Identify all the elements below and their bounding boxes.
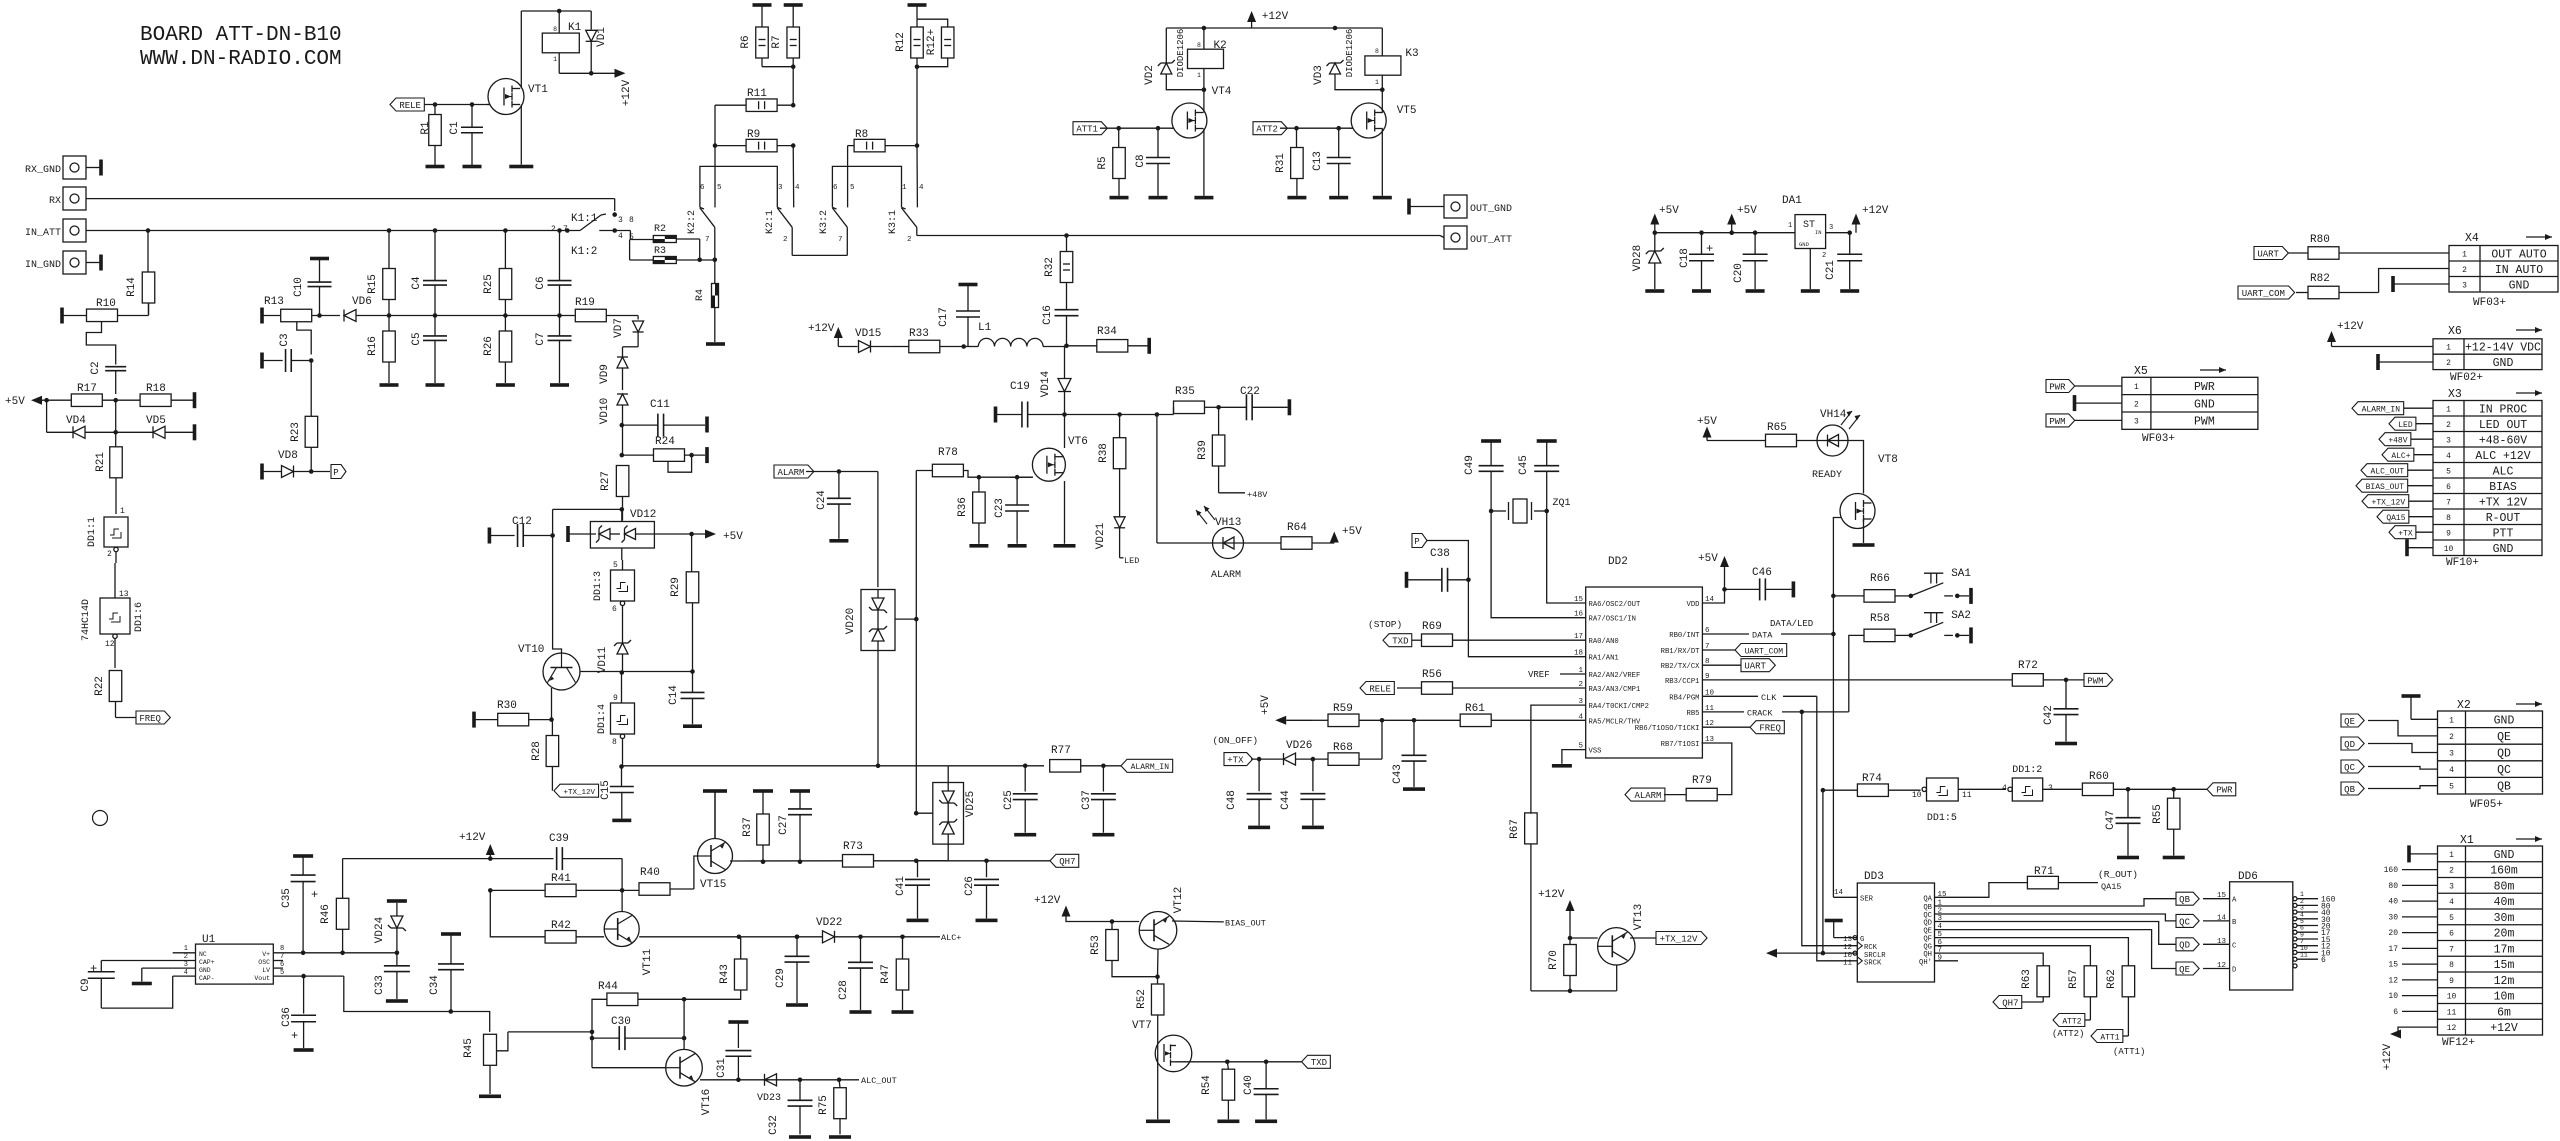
capacitor C17 — [938, 283, 980, 347]
svg-text:ALARM_IN: ALARM_IN — [1131, 763, 1170, 772]
wire VT13 emitter rail — [1531, 990, 1617, 992]
svg-text:ALC+: ALC+ — [941, 933, 961, 943]
wire RB3 to R72 — [1702, 679, 2012, 681]
svg-text:CAP-: CAP- — [199, 975, 215, 982]
svg-text:VD20: VD20 — [845, 608, 857, 634]
logic gate DD1:4 — [597, 673, 635, 767]
svg-text:10: 10 — [2444, 545, 2454, 554]
svg-text:DD3: DD3 — [1864, 871, 1884, 883]
svg-text:1: 1 — [1197, 72, 1201, 79]
resistor R22 — [94, 671, 136, 718]
svg-text:VD12: VD12 — [630, 509, 656, 521]
ground under C1 — [463, 165, 482, 169]
ground under C48 — [1248, 826, 1270, 830]
svg-text:C39: C39 — [549, 833, 569, 845]
net flag ATT1 at R62 — [2091, 1030, 2145, 1058]
svg-text:K3:2: K3:2 — [819, 210, 830, 234]
svg-text:C20: C20 — [1733, 263, 1745, 283]
resistor R2 (jumper) — [630, 224, 676, 243]
svg-text:2: 2 — [2134, 400, 2139, 409]
svg-text:R30: R30 — [497, 700, 517, 712]
svg-text:3: 3 — [2462, 281, 2467, 290]
svg-text:VT6: VT6 — [1068, 436, 1088, 448]
svg-text:C1: C1 — [449, 121, 461, 135]
svg-text:6: 6 — [833, 184, 838, 192]
capacitor C12 — [488, 516, 555, 547]
diode pair VD25 — [914, 766, 977, 863]
resistor R21 — [95, 432, 122, 514]
svg-text:2: 2 — [184, 953, 188, 961]
text (ON_OFF) — [1213, 735, 1259, 746]
svg-text:X2: X2 — [2457, 699, 2471, 712]
svg-text:+48V: +48V — [1247, 490, 1268, 500]
svg-text:1: 1 — [2449, 716, 2454, 725]
svg-text:CRACK: CRACK — [1747, 708, 1773, 718]
power +5V arrow at C20 — [1727, 205, 1757, 233]
svg-text:C15: C15 — [600, 780, 612, 800]
ground lead X6 pin2 — [2376, 354, 2433, 370]
svg-text:30m: 30m — [2494, 912, 2515, 925]
svg-text:R35: R35 — [1175, 386, 1195, 398]
svg-text:RA4/T0CKI/CMP2: RA4/T0CKI/CMP2 — [1589, 703, 1649, 711]
svg-text:C32: C32 — [768, 1115, 780, 1135]
resistor R24 — [620, 436, 709, 472]
ground under C24 — [829, 539, 848, 543]
svg-text:RB4/PGM: RB4/PGM — [1669, 694, 1699, 702]
svg-text:QE: QE — [2497, 731, 2511, 744]
svg-text:+48-60V: +48-60V — [2479, 434, 2527, 447]
wire +12V rail K2 K3 — [1166, 26, 1382, 63]
resistor R77 — [1050, 745, 1121, 772]
svg-text:RELE: RELE — [1369, 684, 1391, 694]
power +5V arrow at DD3 SRCLR — [1766, 949, 1857, 958]
svg-text:R78: R78 — [938, 447, 958, 459]
svg-text:SER: SER — [1860, 896, 1874, 904]
svg-text:(ON_OFF): (ON_OFF) — [1213, 735, 1259, 746]
svg-text:ALARM: ALARM — [777, 468, 804, 478]
ground under C23 — [1008, 544, 1027, 548]
svg-text:R10: R10 — [96, 298, 116, 310]
svg-text:8: 8 — [1197, 42, 1201, 49]
capacitor C21 — [1825, 233, 1862, 289]
svg-text:DD1:5: DD1:5 — [1927, 813, 1957, 824]
resistor R80 — [2288, 234, 2449, 259]
svg-text:1: 1 — [553, 56, 557, 63]
svg-text:VREF: VREF — [1528, 670, 1550, 680]
power +12V arrow mid-left — [459, 832, 495, 859]
ground under C47 — [2117, 856, 2139, 860]
svg-text:RA2/AN2/VREF: RA2/AN2/VREF — [1589, 672, 1641, 680]
svg-text:RB5: RB5 — [1687, 710, 1700, 718]
svg-text:C9: C9 — [80, 978, 92, 991]
svg-text:R46: R46 — [320, 904, 332, 924]
svg-text:WF10+: WF10+ — [2446, 557, 2479, 569]
svg-text:ST: ST — [1803, 220, 1815, 231]
net flag ATT1 — [1073, 122, 1107, 135]
svg-text:R39: R39 — [1197, 440, 1209, 460]
resistor R6 — [740, 27, 793, 67]
ground under R5 — [1110, 196, 1129, 200]
svg-text:VD21: VD21 — [1095, 522, 1107, 549]
ground under C14 — [683, 724, 702, 728]
net flag UART at DD2 — [1702, 659, 1775, 672]
svg-text:+12V: +12V — [1538, 889, 1565, 901]
ground under C36 — [294, 1048, 314, 1052]
svg-text:PWR: PWR — [2194, 381, 2215, 394]
svg-text:17m: 17m — [2494, 943, 2515, 956]
connector IN_ATT — [25, 219, 86, 242]
wire IN_ATT line — [86, 228, 580, 279]
connector X2 — [2438, 699, 2543, 811]
ground lead X2 pin1 — [2402, 694, 2438, 719]
svg-text:C19: C19 — [1010, 381, 1030, 393]
svg-text:C23: C23 — [994, 498, 1006, 518]
wire R45 wiper to C30 node — [508, 1030, 594, 1035]
net flag ALARM_IN at R77 — [1121, 759, 1173, 772]
ground lead X3 pin10 — [2405, 539, 2433, 556]
svg-text:17: 17 — [2388, 945, 2398, 954]
svg-text:R56: R56 — [1422, 669, 1442, 681]
svg-text:+5V: +5V — [1342, 526, 1362, 538]
small circle marker — [93, 811, 108, 826]
ground under C29 — [786, 1003, 808, 1007]
net flag PWR at R60 — [2207, 783, 2236, 796]
svg-text:6: 6 — [2449, 930, 2454, 939]
svg-text:12: 12 — [2388, 976, 2398, 985]
svg-text:QH7: QH7 — [2002, 998, 2018, 1008]
text DIODE1206 K3 — [1345, 29, 1355, 78]
svg-text:VT15: VT15 — [700, 879, 726, 891]
resistor R62 — [2106, 966, 2135, 1036]
svg-text:9: 9 — [2449, 977, 2454, 986]
ground under C42 — [2055, 742, 2077, 746]
svg-text:R55: R55 — [2152, 804, 2164, 824]
capacitor C44 — [1280, 759, 1325, 825]
power +5V arrow at R65 — [1697, 416, 1766, 441]
svg-text:11: 11 — [2447, 1008, 2457, 1017]
resistor R31 — [1275, 128, 1303, 196]
resistor R72 — [2012, 660, 2084, 686]
svg-text:QD: QD — [2344, 740, 2355, 750]
svg-text:K1:1: K1:1 — [571, 213, 598, 225]
capacitor C26 — [964, 861, 999, 919]
net flag BIAS_OUT at X3 — [2356, 479, 2433, 492]
svg-text:C24: C24 — [816, 490, 828, 510]
ground lead X4 pin3 — [2391, 276, 2449, 292]
power +5V arrow at R59 — [1260, 695, 1313, 725]
pushbutton SA2 — [1909, 610, 1973, 643]
net flag UART_COM at DD2 — [1702, 644, 1786, 657]
svg-text:C42: C42 — [2043, 705, 2055, 725]
resistor R52 — [1136, 977, 1164, 1036]
svg-text:+: + — [291, 1029, 298, 1043]
svg-text:VD14: VD14 — [1040, 370, 1052, 397]
wire C49 column to pin16 — [1491, 511, 1586, 618]
svg-text:QD: QD — [2179, 941, 2190, 951]
svg-text:C12: C12 — [512, 516, 532, 528]
svg-text:1: 1 — [1375, 79, 1379, 86]
logic gate DD1:3 — [593, 560, 635, 635]
svg-text:IN_GND: IN_GND — [25, 260, 61, 271]
svg-text:BIAS: BIAS — [2489, 481, 2517, 494]
svg-text:RB1/RX/DT: RB1/RX/DT — [1661, 648, 1701, 656]
svg-text:K2:2: K2:2 — [687, 210, 698, 234]
svg-text:LV: LV — [262, 967, 270, 974]
capacitor C15 — [600, 764, 634, 818]
svg-text:QF: QF — [1923, 936, 1932, 944]
capacitor C27 — [778, 809, 812, 864]
svg-text:X5: X5 — [2134, 365, 2148, 378]
IC DD6 — [2217, 871, 2336, 990]
svg-text:VT16: VT16 — [701, 1089, 713, 1115]
diode VD1 — [586, 27, 608, 74]
capacitor C35 (electrolytic) — [281, 854, 318, 955]
svg-text:R6: R6 — [740, 35, 752, 48]
power +5V arrow at R64 — [1330, 526, 1362, 543]
svg-text:C21: C21 — [1825, 260, 1837, 280]
svg-text:C34: C34 — [429, 975, 441, 995]
power +12V arrow at X6 — [2327, 321, 2433, 347]
svg-text:DD1:2: DD1:2 — [2012, 765, 2042, 776]
svg-text:ALC +12V: ALC +12V — [2475, 450, 2530, 463]
ground under C25 — [1014, 833, 1036, 837]
wire DA1 rail — [1653, 230, 1796, 235]
wire QD to flag — [1935, 922, 2177, 945]
svg-text:R33: R33 — [909, 328, 929, 340]
ground under VT1 — [509, 165, 533, 169]
svg-text:RELE: RELE — [399, 101, 421, 111]
transistor VT15 — [698, 792, 843, 891]
capacitor C41 — [895, 861, 930, 919]
diode VD6 — [344, 296, 575, 322]
svg-text:80: 80 — [2388, 882, 2398, 891]
ground above R7 — [784, 3, 803, 27]
svg-text:C7: C7 — [535, 332, 547, 345]
net flag P at C38 — [1412, 534, 1427, 548]
resistor R14 — [126, 231, 155, 315]
svg-text:R59: R59 — [1333, 703, 1353, 715]
svg-text:+12V: +12V — [621, 79, 633, 106]
svg-text:PWR: PWR — [2216, 786, 2233, 796]
relay coil K1 — [542, 22, 581, 73]
svg-text:R64: R64 — [1287, 522, 1307, 534]
svg-text:GND: GND — [1799, 241, 1810, 248]
svg-text:B: B — [2232, 919, 2237, 927]
ground under C8 — [1149, 196, 1168, 200]
resistor R69 — [1412, 621, 1586, 646]
diode VD22 — [816, 917, 940, 943]
capacitor C28 — [838, 935, 873, 1011]
ground under DA1 — [1801, 289, 1820, 293]
svg-text:R65: R65 — [1767, 422, 1787, 434]
svg-text:R15: R15 — [367, 274, 379, 294]
diode VD5 — [113, 415, 196, 440]
svg-text:11: 11 — [2300, 952, 2308, 959]
svg-text:R16: R16 — [367, 336, 379, 356]
svg-text:DD1:6: DD1:6 — [134, 602, 145, 632]
svg-text:VD2: VD2 — [1144, 65, 1156, 85]
capacitor C38 — [1405, 548, 1471, 592]
relay contact K1:1 — [551, 212, 634, 234]
svg-text:R40: R40 — [640, 867, 660, 879]
svg-text:R43: R43 — [719, 964, 731, 984]
resistor R39 — [1197, 407, 1268, 500]
diode VD24 (zener) — [374, 899, 407, 955]
transistor VT6 (MOSFET) — [1010, 415, 1088, 544]
svg-text:R12+: R12+ — [926, 29, 938, 55]
power +5V arrow right of VD12 — [705, 530, 743, 544]
svg-text:6: 6 — [2446, 483, 2451, 492]
svg-text:+TX: +TX — [2398, 530, 2413, 539]
wire R77 row — [948, 764, 1044, 769]
ground under C40 — [1255, 1120, 1277, 1124]
transistor VT4 (MOSFET) — [1171, 86, 1232, 196]
svg-text:R-OUT: R-OUT — [2486, 512, 2521, 525]
svg-text:(STOP): (STOP) — [1368, 619, 1402, 630]
capacitor C3 — [260, 333, 313, 416]
svg-text:ALARM: ALARM — [1211, 570, 1241, 581]
ground bar above R37 — [753, 789, 773, 813]
svg-text:QA: QA — [1923, 895, 1932, 903]
svg-text:VD1: VD1 — [596, 27, 608, 47]
ground under R31 — [1287, 196, 1306, 200]
wire R11 left column to K2:2 pin5 — [713, 105, 718, 207]
pushbutton SA1 — [1909, 568, 1973, 604]
svg-text:30: 30 — [2388, 913, 2398, 922]
svg-text:QH': QH' — [1919, 959, 1932, 967]
connector RX — [49, 187, 86, 210]
capacitor C25 — [1003, 766, 1038, 833]
svg-text:SA1: SA1 — [1951, 568, 1971, 580]
ground under C13 — [1329, 196, 1348, 200]
svg-text:VT10: VT10 — [518, 644, 544, 656]
svg-text:R41: R41 — [551, 873, 571, 885]
svg-text:VD4: VD4 — [66, 415, 86, 427]
svg-text:+5V: +5V — [1260, 695, 1272, 715]
svg-text:BIAS_OUT: BIAS_OUT — [1225, 919, 1266, 929]
svg-text:ZQ1: ZQ1 — [1553, 498, 1571, 509]
svg-text:QC: QC — [2497, 764, 2511, 777]
ground under R26 — [496, 383, 515, 387]
svg-text:R37: R37 — [742, 817, 754, 837]
ground bar above C27 — [790, 789, 810, 808]
capacitor C49 — [1464, 455, 1504, 511]
svg-text:4: 4 — [1578, 713, 1583, 721]
svg-text:P: P — [1414, 537, 1419, 547]
crystal ZQ1 — [1489, 498, 1571, 523]
resistor R68 — [1328, 720, 1382, 765]
ground under C33 — [386, 999, 408, 1003]
svg-text:C: C — [2232, 942, 2237, 950]
svg-text:VH14: VH14 — [1820, 409, 1847, 421]
svg-text:3: 3 — [2048, 784, 2053, 793]
ground under R1 — [426, 165, 445, 169]
svg-text:IN_ATT: IN_ATT — [25, 228, 61, 239]
svg-text:(ATT1): (ATT1) — [2113, 1047, 2145, 1057]
wire K1 bottom to +12V — [559, 71, 614, 76]
svg-text:R11: R11 — [747, 88, 767, 100]
svg-text:+12V: +12V — [2337, 321, 2364, 333]
capacitor C39 — [549, 833, 622, 890]
capacitor C23 — [994, 477, 1029, 544]
svg-text:R27: R27 — [600, 471, 612, 491]
svg-text:+5V: +5V — [1659, 205, 1679, 217]
svg-text:Vout: Vout — [254, 975, 270, 982]
svg-text:TXD: TXD — [1392, 637, 1408, 647]
svg-text:(ATT2): (ATT2) — [2052, 1029, 2084, 1039]
svg-text:C36: C36 — [281, 1007, 293, 1027]
net flag +TX_12V at X3 — [2362, 495, 2433, 508]
net flag P — [331, 465, 346, 479]
logic gate DD1:6 (74HC14D) — [81, 563, 145, 668]
wire U1 V+ rail — [303, 951, 397, 956]
wire P to C38 node — [1427, 541, 1468, 581]
resistor R19 — [575, 297, 638, 322]
text (STOP) — [1368, 619, 1402, 630]
ground under R47 — [892, 1010, 914, 1014]
svg-text:160: 160 — [2384, 866, 2399, 875]
wire pin3 to R67 — [1531, 705, 1586, 814]
ground under VT4 — [1194, 196, 1213, 200]
resistor R32 — [1044, 236, 1073, 310]
svg-text:R7: R7 — [771, 35, 783, 48]
diode VD23 — [757, 1074, 781, 1104]
power +12V arrow at VT13 — [1538, 889, 1575, 940]
svg-text:C4: C4 — [411, 276, 423, 290]
svg-text:R54: R54 — [1201, 1075, 1213, 1095]
svg-text:3: 3 — [618, 216, 623, 225]
title text — [140, 24, 342, 71]
net flag ALARM_IN at X3 — [2352, 402, 2433, 415]
capacitor C13 — [1312, 128, 1351, 196]
svg-text:CAP+: CAP+ — [199, 959, 215, 966]
svg-text:R4: R4 — [695, 289, 706, 301]
svg-text:VT4: VT4 — [1212, 86, 1232, 98]
svg-text:+5V: +5V — [1697, 416, 1717, 428]
wire QE to flag — [1935, 930, 2177, 969]
svg-text:CLK: CLK — [1761, 693, 1777, 703]
wire VT16 emitter row ALC_OUT — [700, 1076, 897, 1086]
wire ATT1 to VT4 gate — [1100, 126, 1173, 131]
svg-text:R29: R29 — [670, 577, 682, 597]
svg-text:VD8: VD8 — [278, 450, 298, 462]
ground under R36 — [969, 544, 988, 548]
svg-text:+TX_12V: +TX_12V — [2372, 499, 2406, 508]
svg-text:R17: R17 — [77, 383, 97, 395]
svg-text:+5V: +5V — [1737, 205, 1757, 217]
svg-text:C27: C27 — [778, 815, 790, 835]
net flag UART at X4 — [2254, 247, 2288, 260]
resistor R12+ — [917, 19, 954, 66]
net flag +TX_12V — [554, 784, 599, 797]
svg-text:K2:1: K2:1 — [765, 210, 776, 234]
svg-text:2: 2 — [783, 236, 788, 244]
resistor R15 — [367, 231, 395, 300]
resistor R9 — [715, 129, 796, 152]
net flag QC at X2 — [2341, 760, 2438, 773]
svg-text:P: P — [333, 468, 338, 478]
capacitor C40 — [1243, 1062, 1279, 1120]
wire VT10 collector row — [620, 669, 695, 675]
IC DD3 — [1833, 871, 1947, 982]
capacitor C10 — [293, 257, 332, 316]
wire QH' stub — [1935, 960, 1959, 962]
svg-text:DATA: DATA — [1752, 631, 1773, 641]
capacitor C31 — [716, 1020, 751, 1080]
svg-text:R34: R34 — [1097, 326, 1117, 338]
relay contact K3:2 — [819, 184, 855, 255]
ground at DD2 VSS — [1552, 764, 1572, 768]
